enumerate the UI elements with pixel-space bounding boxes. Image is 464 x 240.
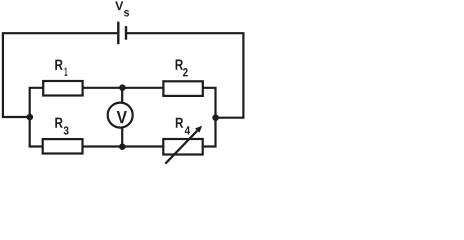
variable resistor arrow shaft R4 [165,131,197,164]
label R2 [176,60,183,70]
wire voltmeter bottom lead [121,128,123,147]
resistor R4 body [163,139,202,155]
variable resistor arrowhead R4 [195,126,202,133]
label R4 [176,118,183,128]
resistor R1 body [43,81,82,96]
wire bottom branch between R3 and R4 [83,145,163,147]
resistor R3 body [43,139,83,153]
label R1 [55,60,62,70]
node junction dot bottom (voltmeter to bottom branch) [119,143,126,150]
label R3 [55,118,62,128]
resistor R2 body [163,81,202,96]
node junction dot left (supply to bridge left) [27,114,34,121]
wire voltmeter top lead [121,88,123,103]
battery Vs long plate [117,22,119,45]
wire outer loop left: left vertical and top-left segment to battery [3,33,117,117]
wire top branch between R1 and R2 [83,87,163,89]
battery Vs short plate [125,26,127,40]
node junction dot top (voltmeter to top branch) [119,84,126,91]
wire bridge right vertical with stubs from R2 and R4 [203,88,215,147]
node junction dot right (supply to bridge right) [212,114,219,121]
wire outer loop right: from battery to top-right corner, down right side to node [127,33,243,118]
voltmeter V1 circle [108,103,133,128]
label Vs [115,1,123,10]
voltmeter letter V [117,111,127,123]
wire bridge left vertical with stubs to R1 and R3 [30,88,43,147]
